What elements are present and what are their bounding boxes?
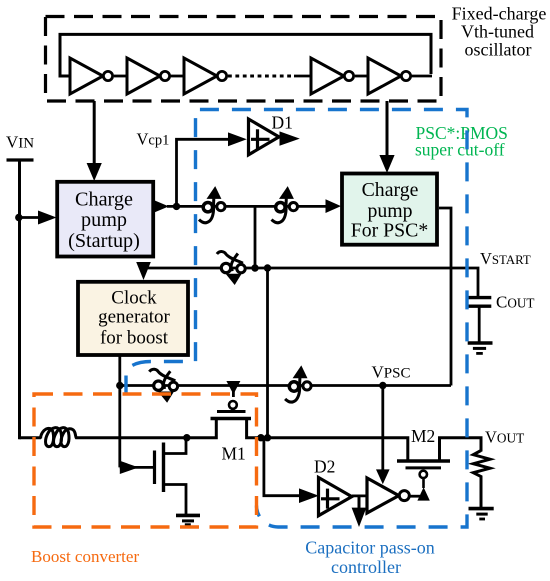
ground for COUT xyxy=(468,341,493,345)
boost converter dashed boundary (orange) xyxy=(34,394,257,527)
wire PSC pump output down to VPSC row xyxy=(439,208,451,386)
svg-text:Boost converter: Boost converter xyxy=(31,547,139,566)
resistor load xyxy=(473,451,490,509)
svg-text:super cut-off: super cut-off xyxy=(415,139,505,159)
wire M1 right leg to M2 left leg xyxy=(247,419,408,462)
node junction at startup output xyxy=(173,203,180,210)
wire VIN rail down xyxy=(18,160,21,439)
svg-text:M2: M2 xyxy=(411,426,435,446)
svg-text:generator: generator xyxy=(98,306,170,327)
delay element D2 xyxy=(319,478,352,516)
capacitor pass-on controller dashed boundary (blue) xyxy=(126,110,467,528)
wire Vcp1 branch up to D1 xyxy=(177,139,230,206)
wire xyxy=(355,75,369,78)
node junction xyxy=(251,264,258,271)
charge pump For PSC* box xyxy=(342,174,437,245)
wire oscillator tap to startup charge pump xyxy=(93,101,96,164)
wire vertical link S1-row to VSTART row xyxy=(254,206,257,268)
ground for boost NMOS xyxy=(176,514,200,518)
wire VPSC down to inverter with arrow xyxy=(381,386,384,472)
switch S3 on VSTART row xyxy=(217,252,245,285)
switch S2 on startup output row xyxy=(272,186,298,223)
node junction NMOS drain xyxy=(183,434,190,441)
wire M2 right leg to VOUT xyxy=(440,438,482,461)
wire feedback loop of oscillator xyxy=(60,34,431,76)
inverter chain inverter 1 xyxy=(70,58,113,94)
switch S4 on VPSC row xyxy=(149,369,177,402)
delay element D1 xyxy=(249,119,280,155)
svg-text:controller: controller xyxy=(331,557,401,577)
wire D1 output arrow xyxy=(280,131,300,145)
transistor M1 (PMOS pass) xyxy=(229,401,237,409)
clock generator for boost box xyxy=(78,282,188,355)
node VIN terminal bar xyxy=(7,158,34,161)
svg-text:COUT: COUT xyxy=(496,293,534,312)
wire clock output down xyxy=(118,356,121,468)
svg-text:Charge: Charge xyxy=(362,179,419,201)
node junction on VPSC row xyxy=(116,382,123,389)
charge pump (Startup) box xyxy=(57,182,153,257)
svg-text:Charge: Charge xyxy=(75,188,133,210)
node junction xyxy=(264,264,271,271)
ground for load xyxy=(469,507,494,511)
wire xyxy=(294,75,312,78)
svg-text:oscillator: oscillator xyxy=(465,40,532,60)
svg-text:for boost: for boost xyxy=(100,328,169,349)
svg-text:VIN: VIN xyxy=(6,133,34,152)
svg-text:Capacitor pass-on: Capacitor pass-on xyxy=(305,538,434,558)
inverter chain inverter 2 xyxy=(127,58,170,94)
svg-text:Fixed-charge: Fixed-charge xyxy=(452,4,547,24)
node junction on VIN rail xyxy=(15,214,22,221)
svg-text:For PSC*: For PSC* xyxy=(351,220,429,242)
svg-text:pump: pump xyxy=(81,209,127,231)
svg-text:Vth-tuned: Vth-tuned xyxy=(461,22,534,42)
wire dotted continuation xyxy=(228,75,294,78)
oscillator dashed box xyxy=(46,17,442,102)
inverter chain inverter 4 xyxy=(311,58,354,94)
wire down to D2 input xyxy=(264,438,300,496)
wire xyxy=(114,75,128,78)
inverter chain inverter 5 xyxy=(368,58,411,94)
wire VIN to startup charge pump xyxy=(20,216,40,219)
wire oscillator tap to PSC charge pump xyxy=(386,101,389,156)
wire NMOS gate drive arrow xyxy=(120,466,153,469)
node junction xyxy=(257,434,264,441)
switch S1 on startup output row xyxy=(199,186,225,223)
wire VPSC row xyxy=(120,384,451,387)
wire vertical down to pass-transistor row xyxy=(266,268,269,438)
svg-text:VPSC: VPSC xyxy=(372,363,411,382)
wire oscillator output to feedback corner xyxy=(412,75,433,78)
svg-text:VOUT: VOUT xyxy=(485,428,524,447)
wire M1 gate drive arrow xyxy=(232,386,235,398)
wire startup output with arrow xyxy=(153,200,169,213)
svg-text:Vcp1: Vcp1 xyxy=(137,130,170,149)
inductor L xyxy=(41,428,77,447)
svg-text:D1: D1 xyxy=(272,113,293,133)
node junction VPSC xyxy=(379,382,386,389)
inverter chain inverter 3 xyxy=(184,58,227,94)
wire xyxy=(170,75,185,78)
wire inverter to M2 gate xyxy=(409,495,420,498)
inverter U2 of controller xyxy=(367,478,399,513)
transistor boost NMOS xyxy=(153,451,156,485)
wire VSTART row xyxy=(144,268,479,297)
svg-text:D2: D2 xyxy=(314,457,335,477)
transistor M2 (PMOS pass-on) xyxy=(420,471,427,478)
wire D2 to inverter xyxy=(352,494,368,497)
svg-text:M1: M1 xyxy=(222,444,246,464)
svg-text:(Startup): (Startup) xyxy=(68,230,140,252)
wire arrow into PSC charge pump xyxy=(326,199,342,213)
wire arrow into clock generator xyxy=(136,262,151,280)
wire branch down with arrow xyxy=(358,496,361,509)
switch S5 on VPSC row xyxy=(285,365,311,402)
wire inductor row left segment xyxy=(20,436,42,439)
wire inductor to M1 left leg xyxy=(76,419,217,438)
capacitor COUT xyxy=(467,296,491,299)
node junction xyxy=(264,434,271,441)
